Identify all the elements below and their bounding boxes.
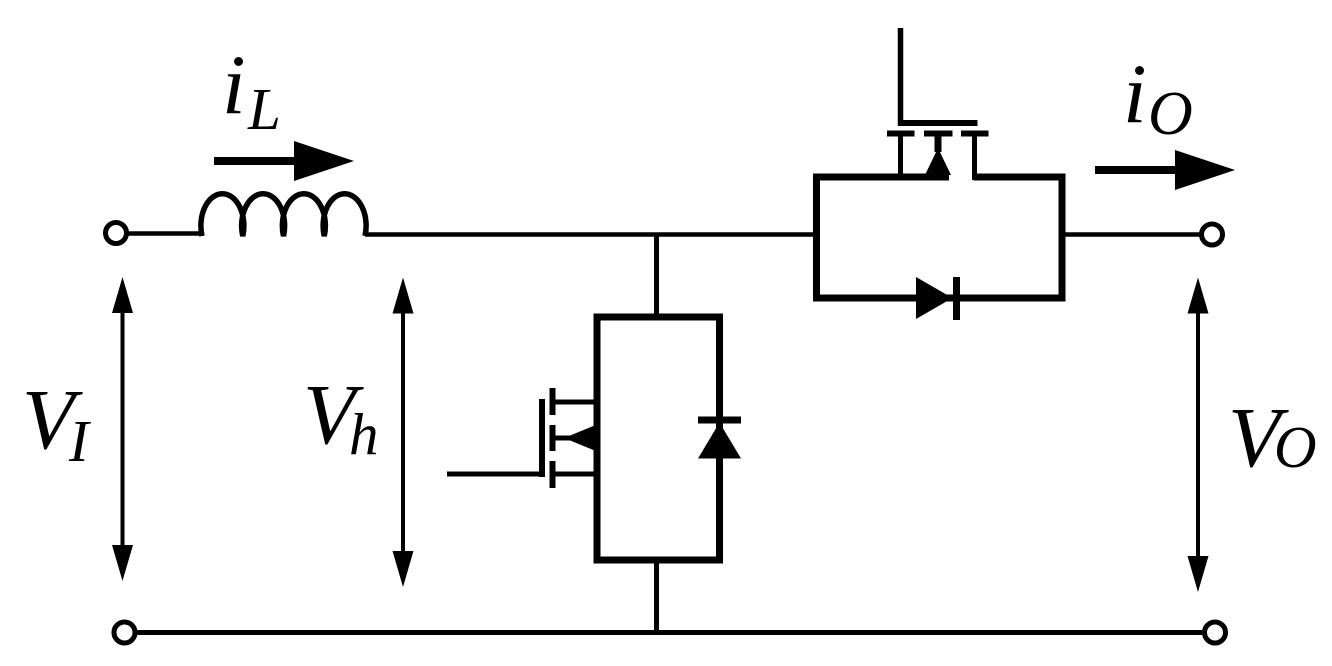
bottom rail wire [136, 630, 1202, 635]
svg-text:i: i [1123, 47, 1147, 141]
transistor Q1 body arrow [552, 436, 570, 441]
diode D2 (antiparallel in S2) [916, 277, 953, 319]
arrow iO (current direction) [1095, 166, 1179, 174]
transistor Q1 drain lead [552, 400, 597, 405]
svg-text:I: I [68, 408, 91, 474]
transistor Q1 gate bar [539, 399, 545, 477]
wire: S2 box to output terminal [1062, 232, 1201, 237]
transistor Q1 gate lead [447, 472, 542, 477]
wire: S1 box to bottom rail [654, 560, 659, 632]
svg-text:O: O [1148, 80, 1193, 148]
wire: inductor to node A [365, 232, 656, 237]
svg-text:h: h [349, 401, 379, 467]
wire: node A down to switch S1 box [654, 234, 659, 317]
voltage arrow VO [1196, 306, 1200, 563]
svg-text:i: i [222, 38, 246, 132]
bottom-left terminal [114, 622, 135, 643]
svg-text:L: L [247, 76, 281, 142]
transistor Q2 drain lead [972, 133, 977, 180]
wire: input terminal to inductor [129, 231, 205, 236]
transistor Q2 gate lead [898, 28, 904, 126]
inductor L [201, 194, 366, 236]
switch S1 box [597, 317, 720, 560]
transistor Q2 gate bar [898, 120, 978, 126]
switch S2 box [817, 177, 1063, 298]
diode D1 (antiparallel in S1) [698, 417, 741, 424]
transistor Q1 channel bars [550, 388, 556, 415]
voltage arrow VI [121, 305, 125, 553]
transistor Q2 source lead [898, 133, 903, 180]
wire: node A to switch S2 box [656, 232, 817, 237]
output terminal top-right [1202, 224, 1223, 245]
transistor Q1 source lead [552, 472, 597, 477]
bottom-right terminal [1205, 622, 1226, 643]
transistor Q2 body arrow [935, 133, 942, 152]
arrow iL (current direction) [214, 157, 298, 165]
transistor Q2 channel bars [887, 131, 915, 137]
voltage arrow Vh [401, 306, 405, 558]
input terminal top-left [106, 223, 127, 244]
svg-text:O: O [1274, 414, 1317, 480]
